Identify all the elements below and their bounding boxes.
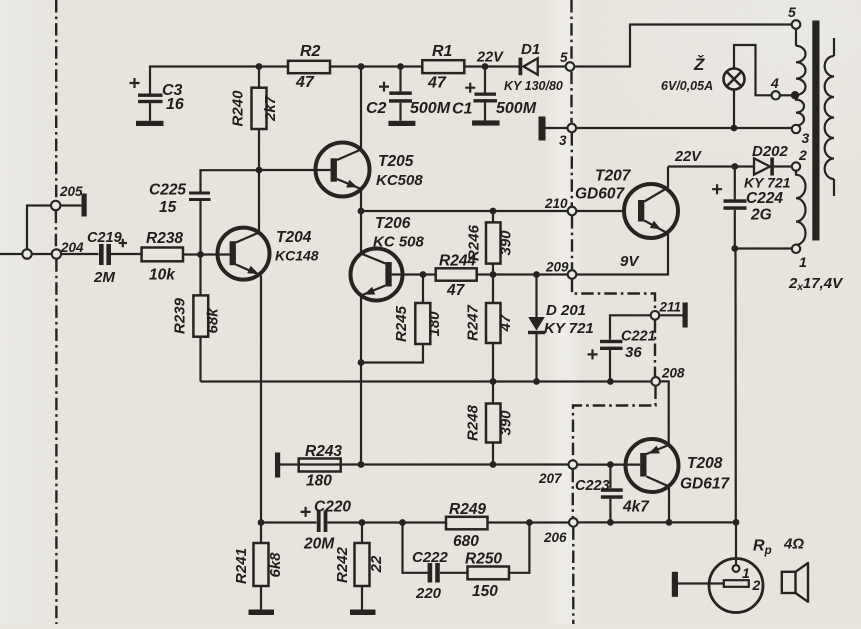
junction dots top rail <box>256 63 263 70</box>
node 208 <box>651 377 660 386</box>
wire: node 5 to transformer pin 5 <box>574 25 792 67</box>
node 204 connectors <box>22 249 31 258</box>
transistor T206 KC508 <box>351 211 436 465</box>
capacitor C221 <box>588 315 656 381</box>
wire: C224 bottom to pin 1 and down to speaker <box>735 249 792 523</box>
speaker icon <box>782 563 808 602</box>
ground R241 <box>249 610 275 616</box>
resistor R244 <box>436 253 568 300</box>
wire: rail 381 <box>201 380 652 382</box>
lamp Z 6V/0.05A <box>661 45 772 128</box>
resistor R239 <box>172 255 222 382</box>
speaker connector Rp <box>678 536 804 613</box>
transformer pin 4 tap <box>780 94 791 96</box>
resistor R243 <box>299 443 343 490</box>
diode D201 KY721 <box>528 275 594 382</box>
wire: node 206 rail <box>261 521 736 523</box>
transformer pin 2 <box>792 162 800 170</box>
resistor R238 <box>142 230 230 284</box>
wire: +22V top rail left section <box>150 67 288 95</box>
diode D1 KY130/80 <box>504 41 566 93</box>
transformer core <box>812 21 819 241</box>
diode D202 KY721 <box>744 143 792 191</box>
capacitor C222 <box>412 549 449 602</box>
resistor R248 <box>465 382 515 465</box>
ground terminal line 3 <box>539 117 546 141</box>
wire: 22V collector rail T207 <box>668 165 754 167</box>
terminal bar 211 <box>683 303 688 328</box>
node 207 <box>569 460 578 469</box>
resistor R242 <box>334 523 385 610</box>
wire: line 3 to transformer pin 3 <box>546 127 793 129</box>
resistor R249 <box>446 501 488 550</box>
resistor R247 <box>465 275 515 382</box>
transistor T205 KC508 <box>316 67 424 212</box>
junction: T205 emitter node <box>358 208 365 215</box>
node 211 <box>651 311 660 320</box>
capacitor C225 <box>149 170 259 254</box>
resistor R241 <box>233 523 284 610</box>
node 206 <box>569 518 578 527</box>
wire: C222/R250 branch <box>403 523 530 573</box>
resistor R1 <box>422 43 464 92</box>
node 210 <box>568 207 577 216</box>
node 209 <box>568 270 577 279</box>
resistor R2 <box>288 43 330 91</box>
transformer secondary winding 2-1 <box>796 171 806 245</box>
capacitor C2 <box>366 67 451 121</box>
wire: T205 base line <box>259 169 331 171</box>
transformer pin 3 <box>792 125 800 133</box>
node 205 <box>51 201 60 210</box>
resistor R240 <box>230 67 280 171</box>
wire: rail R1 to D1 <box>464 65 518 67</box>
transformer pin 1 <box>792 245 800 253</box>
ground C2 <box>388 121 415 126</box>
terminal bar 205 <box>82 194 87 217</box>
wire: node 208 to T208 emitter <box>660 381 669 445</box>
ground R242 <box>350 610 376 616</box>
ground terminal R243 <box>275 453 280 478</box>
capacitor C1 <box>452 67 537 121</box>
wire: 211 to terminal <box>659 314 682 316</box>
wire: line 210 <box>361 210 624 212</box>
capacitor C224 <box>712 167 783 249</box>
resistor R250 <box>465 551 509 601</box>
capacitor C220 <box>301 499 352 553</box>
input wire 204 <box>0 253 99 255</box>
channel boundary dash-dot line center <box>570 0 572 61</box>
capacitor C219 <box>87 230 142 286</box>
transformer primary winding <box>825 38 834 196</box>
junction: T204 collector node <box>256 167 263 174</box>
resistor R245 <box>361 275 443 363</box>
wire: 205 to terminal <box>60 204 81 206</box>
transistor T204 KC148 <box>218 170 319 523</box>
node 3 <box>568 124 577 133</box>
wire: input to node 205 <box>27 206 51 250</box>
ground C3 <box>136 121 164 126</box>
capacitor C3 <box>130 78 184 121</box>
ground C1 <box>472 120 500 125</box>
node 5 <box>566 62 575 71</box>
ground terminal speaker <box>672 572 678 597</box>
wire: line 464 R243 feedback <box>280 463 568 465</box>
transformer pin 5 <box>792 20 801 29</box>
wire: rail R2 to R1 <box>330 65 422 67</box>
transformer secondary winding 5-4-3 <box>796 29 806 126</box>
resistor R246 <box>466 211 515 275</box>
transistor T208 GD617 <box>577 439 731 522</box>
fold dash-dot line left <box>55 0 57 201</box>
transistor T207 GD607 <box>575 167 678 275</box>
capacitor C223 <box>575 465 650 523</box>
wire: speaker feed <box>735 522 737 565</box>
junction dots line 209 <box>420 271 427 278</box>
junction: T204 base node <box>197 251 204 258</box>
